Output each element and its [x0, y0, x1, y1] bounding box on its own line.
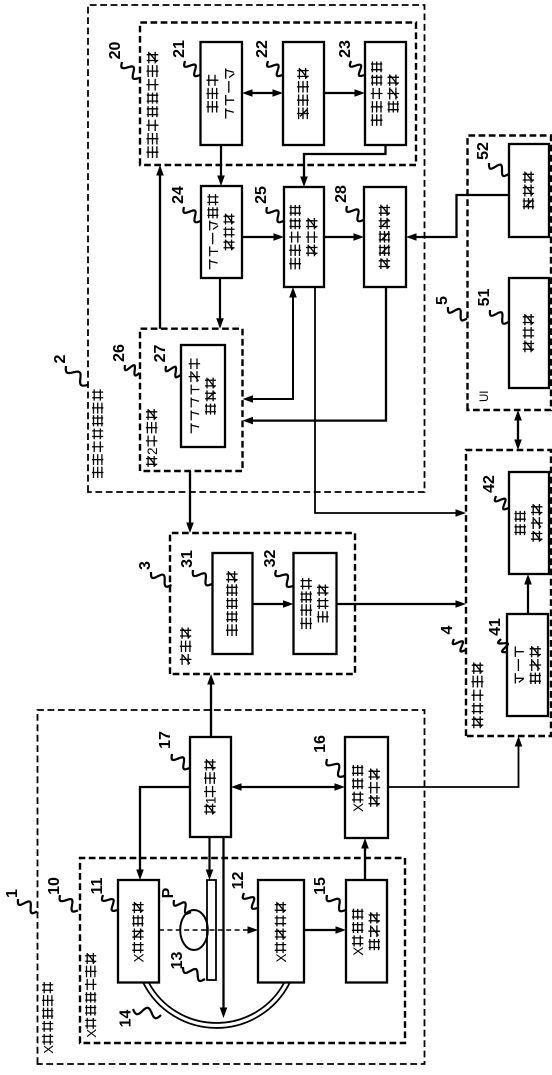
svg-text:5: 5 [434, 296, 451, 305]
svg-text:16: 16 [312, 735, 329, 753]
box 16 X-ray image storage unit [345, 737, 388, 838]
box 27 scan range setting unit [181, 345, 225, 447]
svg-text:21: 21 [171, 40, 188, 58]
svg-text:14: 14 [118, 1010, 135, 1028]
box 32 projection position calculation unit [294, 553, 337, 654]
wire 25 to 28 arrow [324, 236, 358, 238]
dashed box 10 X-ray image acquisition unit [80, 858, 405, 1043]
box 23 ultrasound image generation unit [365, 42, 406, 145]
wire 32 to 4 arrow [337, 603, 461, 605]
box 12 X-ray detection unit (X-sen kenshutsu-bu) [258, 880, 304, 983]
wire 24 to 26 arrow [219, 278, 221, 323]
bed 13 (table) [207, 880, 216, 980]
svg-text:3: 3 [137, 561, 154, 570]
wire 22 to 23 arrow [324, 92, 359, 94]
svg-text:X: X [84, 1029, 99, 1038]
svg-text:12: 12 [230, 872, 247, 890]
svg-text:2: 2 [145, 447, 160, 454]
svg-text:UI: UI [479, 391, 491, 403]
svg-text:11: 11 [89, 877, 106, 894]
svg-text:X: X [351, 947, 366, 956]
svg-text:32: 32 [262, 550, 279, 568]
C-arm 14 double arc [143, 983, 290, 1028]
wire 17 to 3 arrow [210, 680, 212, 737]
svg-text:27: 27 [152, 345, 169, 363]
wire 31 to 32 arrow [253, 603, 288, 605]
wire 4-5 double arrow [517, 416, 519, 444]
dashed box 3 computation unit (enzan-bu) [170, 533, 355, 674]
wire 21 to 24 arrow [220, 145, 222, 180]
wire 24 to 25 arrow [242, 236, 278, 238]
wire 25-27 double arrow [249, 293, 294, 399]
svg-text:10: 10 [46, 877, 63, 895]
svg-text:31: 31 [179, 550, 196, 568]
X-ray beam dashed arrow 11 to 12 [159, 929, 252, 931]
box 28 region specifying unit (ryouiki tokutei-bu) [364, 187, 406, 287]
svg-text:17: 17 [157, 731, 174, 749]
wire 12 to 15 arrow [304, 929, 340, 931]
box 25 ultrasound image storage unit [284, 187, 324, 287]
dashed box 5 UI [468, 136, 552, 411]
dashed box 1 X-ray diagnostic apparatus (X-sen shindan souchi) [38, 710, 425, 1064]
svg-text:41: 41 [487, 618, 504, 636]
wire 25 to 4 arrow [315, 287, 460, 513]
svg-text:52: 52 [475, 142, 492, 160]
wire 15 to 16 arrow [364, 844, 366, 880]
wire 26 to 20 arrow [159, 171, 161, 329]
svg-text:13: 13 [169, 952, 186, 970]
svg-text:1: 1 [4, 889, 21, 898]
box 17 first control unit (dai-1 seigyo-bu) [190, 737, 231, 837]
svg-text:24: 24 [170, 186, 187, 204]
wire 17 to bed 13 arrow [208, 837, 210, 874]
dashed box 4 display control unit (hyouji seigyo-bu) [466, 450, 551, 736]
box 15 X-ray image generation unit [346, 880, 387, 983]
dashed box 20 ultrasound image acquisition unit [140, 23, 416, 166]
svg-text:28: 28 [333, 185, 350, 203]
svg-text:P: P [160, 887, 177, 898]
wire 16 to 4 arrow [388, 742, 519, 787]
box 31 coordinate conversion unit (zahyou henkan-bu) [213, 553, 253, 654]
subject P ellipse [180, 910, 208, 950]
dashed box 2 ultrasound diagnostic apparatus (chou-onpa shindan souchi) [88, 5, 425, 492]
svg-text:X: X [131, 953, 146, 962]
wire 41 to 42 arrow [527, 580, 529, 614]
svg-text:20: 20 [107, 42, 124, 60]
svg-text:51: 51 [476, 289, 493, 307]
svg-text:42: 42 [481, 475, 498, 493]
wire 26 to 3 arrow [189, 471, 191, 527]
box 11 X-ray generation unit (X-sen hassei-bu) [118, 880, 159, 983]
box 52 operation unit (sousa-bu) [509, 144, 549, 237]
wire 23 to 25 arrow [304, 145, 386, 181]
box 22 transmit/receive unit (soujushin-bu) [283, 42, 324, 145]
svg-text:X: X [41, 1045, 56, 1054]
box 41 marker generation unit (marker seisei-bu) [507, 614, 548, 716]
svg-text:22: 22 [254, 40, 271, 58]
wire 16-17 double arrow [237, 786, 339, 788]
svg-text:X: X [351, 803, 366, 812]
svg-text:25: 25 [253, 186, 270, 204]
svg-text:15: 15 [312, 877, 329, 895]
wire 17 to 11 arrow [140, 787, 190, 874]
wire 21-22 double arrow [248, 92, 277, 94]
svg-text:X: X [274, 953, 289, 962]
svg-text:1: 1 [203, 797, 218, 805]
dashed box 26 second control unit (dai-2 seigyo-bu) [140, 329, 243, 471]
wire 52 to 28 arrow [412, 195, 509, 237]
wire 17 to C-arm arrow [222, 837, 224, 1012]
box 24 probe position detection unit [201, 186, 242, 278]
svg-text:26: 26 [111, 344, 128, 362]
svg-text:2: 2 [52, 354, 69, 363]
svg-text:23: 23 [337, 40, 354, 58]
box 21 ultrasound probe (chou-onpa probe) [201, 42, 243, 145]
box 51 display unit (hyouji-bu) [509, 278, 549, 388]
svg-text:4: 4 [439, 625, 456, 634]
wire 28 to 26 arrow [249, 287, 387, 421]
box 42 image synthesis unit (gazou gousei-bu) [509, 472, 549, 574]
